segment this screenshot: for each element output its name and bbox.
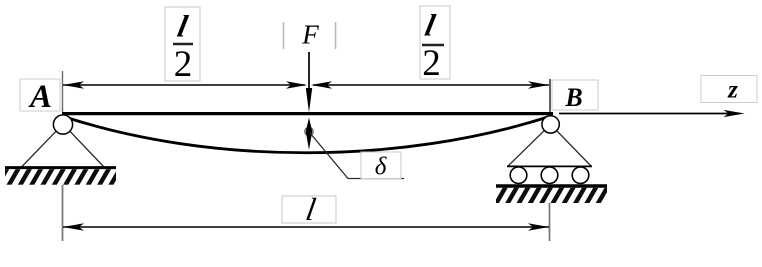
support A ground top line [5, 166, 116, 169]
svg-text:z: z [727, 77, 738, 104]
left l/2 fraction box [165, 7, 200, 81]
arrowhead left end of left l/2 dimension [63, 81, 84, 88]
beam AB [62, 112, 553, 115]
arrowhead left end of l dimension [63, 223, 84, 230]
support A hinge legs [22, 124, 105, 167]
delta label box [361, 152, 401, 179]
extension line at A (top) [62, 71, 64, 112]
support B hinge legs [508, 124, 591, 166]
extension line at A (bottom) [62, 185, 64, 241]
support B ground top line [496, 184, 607, 187]
top dimension line left half (l/2) [63, 84, 305, 86]
force F line [308, 52, 310, 95]
svg-text:2: 2 [422, 43, 441, 84]
svg-text:A: A [28, 79, 52, 115]
support B ground hatching [496, 188, 607, 203]
z axis line [559, 113, 740, 115]
node A label box [20, 79, 60, 111]
node B label box [552, 80, 598, 110]
arrowhead right end of right l/2 dimension [528, 81, 549, 88]
support B hinge circle [542, 116, 559, 133]
right l/2 fraction box [420, 6, 450, 79]
right fraction bar [422, 44, 444, 46]
support B roller base line [507, 165, 592, 167]
top dimension line right half (l/2) [313, 84, 549, 86]
svg-text:B: B [564, 83, 582, 112]
support B roller 3 [572, 167, 589, 184]
arrowhead left end of right l/2 dimension [311, 81, 332, 88]
force F label left tick [283, 22, 285, 49]
svg-text:2: 2 [174, 44, 193, 85]
support B roller 2 [541, 167, 558, 184]
support B roller 1 [510, 167, 527, 184]
arrowhead right end of l dimension [528, 223, 549, 230]
svg-text:δ: δ [375, 154, 387, 181]
z axis arrowhead [724, 110, 745, 117]
force F arrowhead [306, 88, 312, 113]
force F label right tick [335, 22, 337, 49]
extension line at B (top) [549, 79, 551, 112]
extension line at B (bottom) [549, 203, 551, 241]
delta measurement circle [305, 127, 313, 135]
z axis label box [701, 76, 757, 103]
svg-text:F: F [301, 20, 319, 50]
bottom dimension line (l) [63, 226, 549, 228]
span l label box [282, 196, 336, 223]
delta double arrow (beam to curve) [306, 118, 312, 151]
support A hinge circle [53, 115, 72, 134]
arrowhead right end of left l/2 dimension [286, 81, 307, 88]
deflected beam curve [62, 116, 551, 153]
left fraction bar [173, 43, 193, 45]
support A ground hatching [5, 169, 116, 185]
delta leader line [310, 133, 404, 179]
